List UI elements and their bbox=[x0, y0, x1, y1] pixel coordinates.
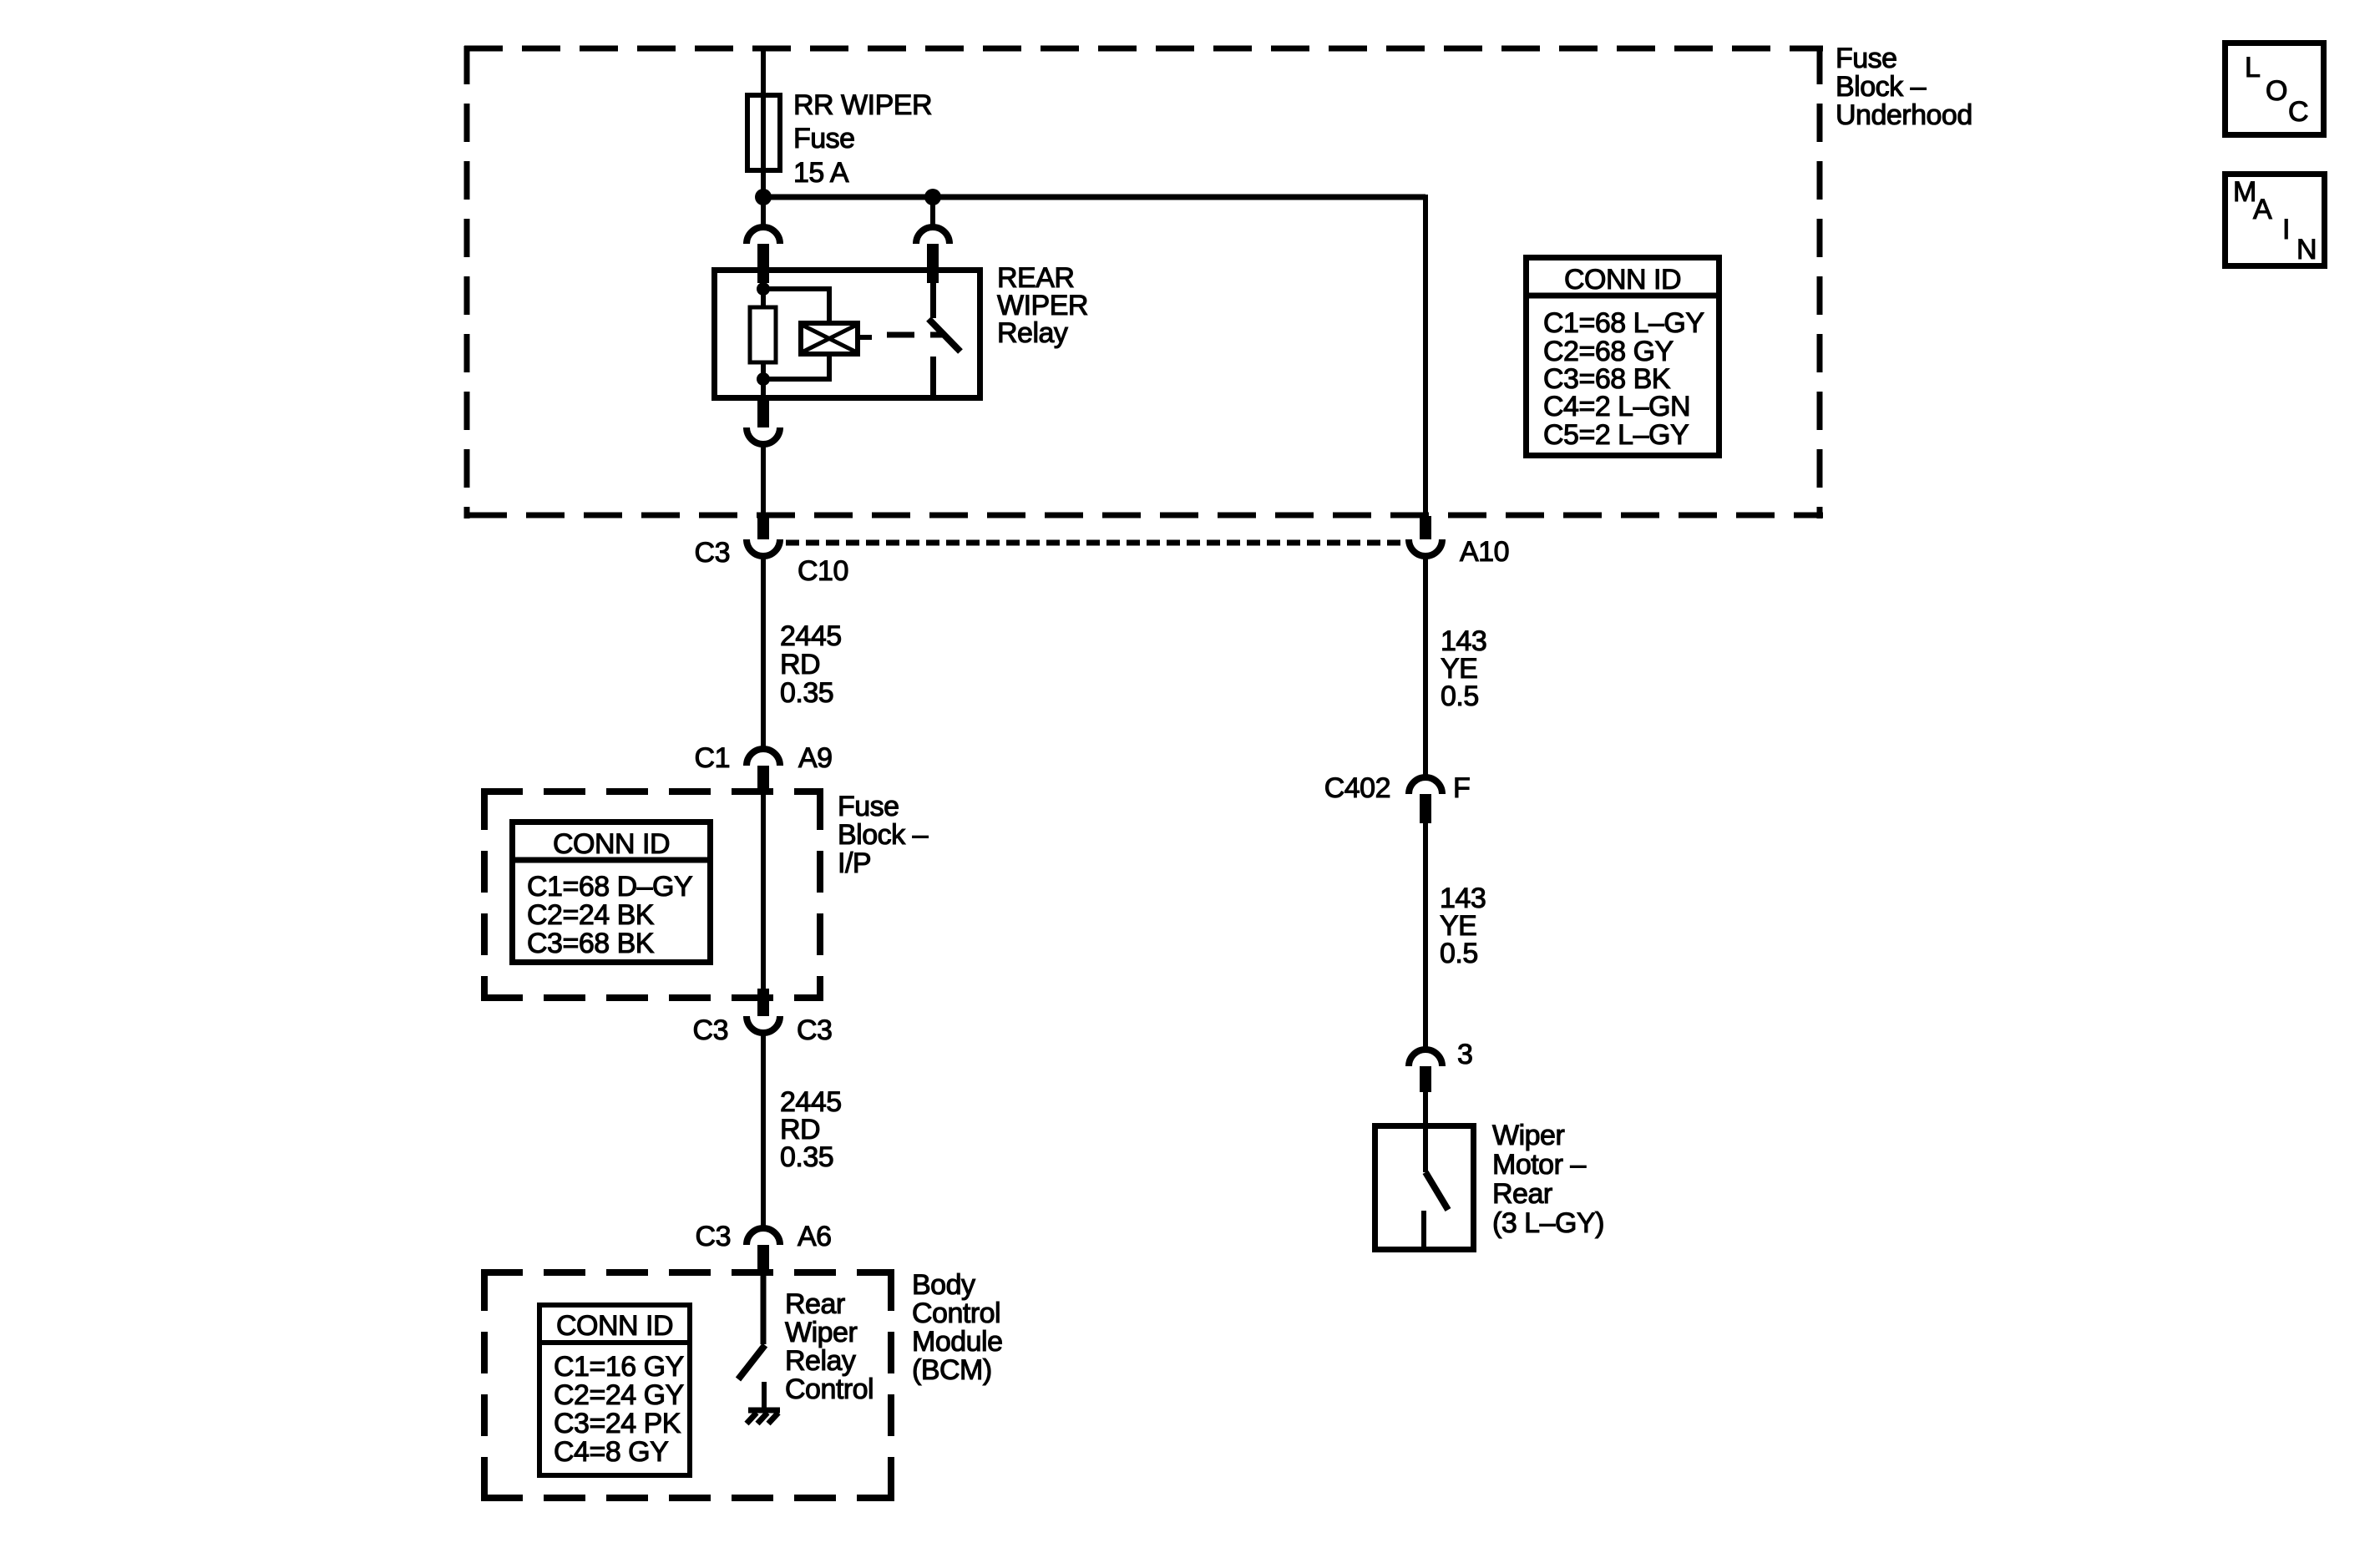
svg-text:(3 L–GY): (3 L–GY) bbox=[1492, 1207, 1604, 1239]
relay junction dot bottom bbox=[757, 372, 770, 386]
BCM dashed box bbox=[481, 1269, 894, 1501]
fuse block underhood dashed box bbox=[464, 46, 1823, 518]
svg-text:C4=8 GY: C4=8 GY bbox=[554, 1436, 668, 1468]
horizontal feed wire bbox=[763, 195, 1425, 200]
fuse label bbox=[793, 89, 932, 189]
wire relay to box exit bbox=[761, 446, 766, 518]
svg-text:Wiper: Wiper bbox=[785, 1317, 857, 1348]
fuse block I/P label bbox=[838, 791, 929, 879]
wire to relay pin 2 connector bbox=[930, 197, 935, 225]
svg-text:0.35: 0.35 bbox=[780, 1141, 833, 1173]
svg-text:C: C bbox=[2288, 96, 2308, 128]
ground symbol bbox=[747, 1410, 780, 1424]
wire to relay pin 1 connector bbox=[761, 197, 766, 225]
wiper motor rear box bbox=[1375, 1126, 1474, 1250]
svg-text:C1=68 L–GY: C1=68 L–GY bbox=[1543, 307, 1704, 339]
wire C3 to A6 bbox=[761, 1034, 766, 1227]
svg-text:(BCM): (BCM) bbox=[912, 1354, 992, 1386]
svg-text:Block –: Block – bbox=[838, 819, 929, 851]
wiper motor label bbox=[1492, 1120, 1604, 1239]
LOC box bbox=[2226, 43, 2324, 135]
BCM driver wire bbox=[761, 1274, 767, 1344]
svg-text:A10: A10 bbox=[1460, 536, 1509, 568]
fuse block underhood label bbox=[1836, 43, 1972, 131]
connector C402 / F (cap + stub) bbox=[1409, 777, 1442, 823]
relay box bbox=[715, 271, 980, 398]
svg-text:0.5: 0.5 bbox=[1441, 680, 1479, 712]
relay junction dot top bbox=[757, 282, 770, 296]
relay switch bbox=[929, 271, 960, 398]
svg-text:Control: Control bbox=[785, 1373, 874, 1405]
svg-text:Underhood: Underhood bbox=[1836, 99, 1972, 131]
svg-text:Fuse: Fuse bbox=[793, 123, 855, 154]
junction dot right bbox=[924, 189, 941, 205]
svg-text:A9: A9 bbox=[798, 742, 833, 774]
svg-text:C5=2 L–GY: C5=2 L–GY bbox=[1543, 419, 1689, 451]
relay coil bbox=[801, 323, 858, 354]
svg-text:0.35: 0.35 bbox=[780, 677, 833, 709]
svg-text:I: I bbox=[2282, 214, 2290, 245]
svg-text:Module: Module bbox=[912, 1326, 1003, 1358]
wire from top border to fuse bbox=[761, 48, 766, 94]
svg-text:15 A: 15 A bbox=[793, 157, 849, 189]
svg-text:A6: A6 bbox=[798, 1221, 832, 1252]
svg-text:Wiper: Wiper bbox=[1492, 1120, 1564, 1151]
connector A10 (stub + cup) bbox=[1409, 516, 1442, 556]
svg-text:C1=16 GY: C1=16 GY bbox=[554, 1351, 684, 1383]
relay label bbox=[997, 262, 1088, 349]
connector pin 3 (cap + stub) bbox=[1409, 1050, 1442, 1092]
svg-text:Body: Body bbox=[912, 1269, 975, 1301]
right branch wire down bbox=[1423, 195, 1428, 518]
connector C1 / A9 (cap + stub) bbox=[747, 749, 780, 795]
svg-text:3: 3 bbox=[1457, 1039, 1472, 1070]
fuse RR WIPER 15A bbox=[747, 93, 780, 173]
connector C3 / A6 (cap + stub) bbox=[747, 1228, 780, 1274]
connector C3 / C10 (stub + cup) bbox=[747, 516, 780, 556]
wiper motor switch bbox=[1424, 1126, 1448, 1247]
svg-text:I/P: I/P bbox=[838, 847, 871, 879]
CONN ID table BCM bbox=[539, 1305, 690, 1475]
svg-text:RR WIPER: RR WIPER bbox=[793, 89, 932, 121]
svg-text:Motor –: Motor – bbox=[1492, 1149, 1586, 1181]
relay internal wire down bbox=[761, 278, 766, 307]
svg-text:Control: Control bbox=[912, 1297, 1000, 1329]
svg-text:C2=24 GY: C2=24 GY bbox=[554, 1379, 684, 1411]
svg-text:O: O bbox=[2266, 75, 2287, 107]
svg-text:C3=24 PK: C3=24 PK bbox=[554, 1408, 681, 1439]
rear wiper relay control label bbox=[785, 1288, 874, 1405]
svg-text:Rear: Rear bbox=[785, 1288, 845, 1320]
svg-text:RD: RD bbox=[780, 649, 820, 680]
wire label 143 YE 0.5 (lower) bbox=[1440, 883, 1486, 969]
relay output connector (stub + cup) bbox=[747, 401, 780, 444]
relay coil branch wires bbox=[763, 289, 829, 379]
harness boundary fine dashed line bbox=[786, 540, 1405, 546]
svg-text:2445: 2445 bbox=[780, 620, 842, 652]
svg-text:C1: C1 bbox=[695, 742, 730, 774]
BCM ground stub bbox=[762, 1382, 767, 1410]
CONN ID table underhood bbox=[1526, 258, 1719, 456]
svg-text:C1=68 D–GY: C1=68 D–GY bbox=[527, 871, 692, 903]
connector C3 / C3 (stub + cup) bbox=[747, 989, 780, 1033]
svg-text:CONN ID: CONN ID bbox=[553, 828, 670, 860]
svg-text:Rear: Rear bbox=[1492, 1178, 1552, 1210]
wire C402 to pin 3 bbox=[1423, 823, 1428, 1048]
svg-text:Relay: Relay bbox=[997, 317, 1068, 349]
CONN ID table I/P bbox=[512, 822, 711, 963]
svg-text:C402: C402 bbox=[1324, 772, 1390, 804]
svg-text:C2=24 BK: C2=24 BK bbox=[527, 899, 655, 931]
svg-text:C3: C3 bbox=[695, 537, 730, 569]
relay coil lead bbox=[858, 335, 872, 340]
relay pin 1 connector (cap) bbox=[747, 227, 780, 283]
BCM label bbox=[912, 1269, 1003, 1386]
fuse block I/P dashed box bbox=[481, 788, 823, 1001]
wire label 2445 RD 0.35 (upper) bbox=[780, 620, 842, 709]
svg-text:Fuse: Fuse bbox=[1836, 43, 1897, 74]
relay linkage dashes bbox=[887, 332, 944, 338]
svg-text:A: A bbox=[2253, 194, 2272, 225]
svg-text:L: L bbox=[2245, 52, 2260, 83]
junction dot left bbox=[755, 189, 772, 205]
wire fuse to junction bbox=[761, 173, 766, 197]
svg-text:CONN ID: CONN ID bbox=[556, 1310, 673, 1342]
MAIN box bbox=[2226, 175, 2325, 266]
wire resistor to bottom junction bbox=[761, 362, 766, 404]
svg-text:CONN ID: CONN ID bbox=[1564, 264, 1681, 296]
svg-text:C4=2 L–GN: C4=2 L–GN bbox=[1543, 391, 1690, 422]
svg-text:C3=68 BK: C3=68 BK bbox=[527, 928, 655, 959]
svg-text:N: N bbox=[2296, 234, 2317, 266]
relay resistor bbox=[750, 307, 776, 362]
svg-text:0.5: 0.5 bbox=[1440, 938, 1478, 969]
svg-text:C3: C3 bbox=[696, 1221, 731, 1252]
wire through I/P block bbox=[761, 795, 766, 989]
svg-text:Relay: Relay bbox=[785, 1345, 856, 1377]
svg-text:Fuse: Fuse bbox=[838, 791, 899, 822]
svg-text:C3: C3 bbox=[693, 1014, 728, 1046]
svg-text:F: F bbox=[1453, 772, 1470, 804]
wire A10 to C402 bbox=[1423, 558, 1428, 776]
svg-text:Block –: Block – bbox=[1836, 71, 1927, 103]
wire label 2445 RD 0.35 (lower) bbox=[780, 1086, 842, 1173]
wire C10 to A9 bbox=[761, 558, 766, 747]
BCM driver switch blade bbox=[738, 1345, 765, 1379]
svg-text:C10: C10 bbox=[798, 555, 848, 587]
wire label 143 YE 0.5 (upper) bbox=[1441, 625, 1486, 712]
relay pin 2 connector (cap) bbox=[916, 227, 949, 283]
wire pin 3 to motor bbox=[1423, 1092, 1428, 1127]
svg-text:C3: C3 bbox=[797, 1014, 832, 1046]
